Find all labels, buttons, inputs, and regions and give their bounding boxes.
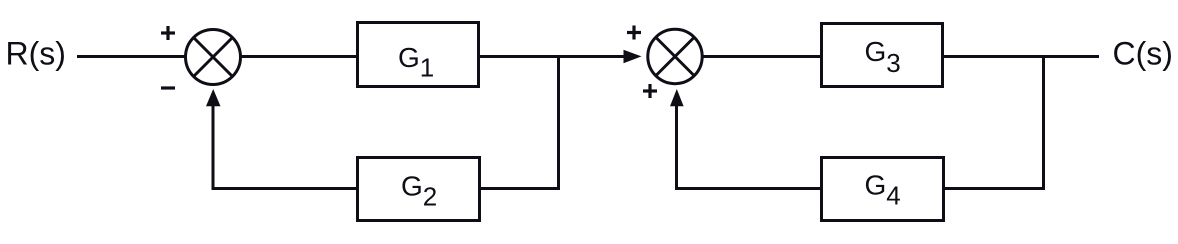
sign + (upper input of S1)	[161, 26, 175, 40]
wire G4 to S2 feedback (vertical riser)	[675, 103, 678, 190]
wire J2 down to G4 input side	[944, 187, 1045, 190]
sign + (upper input of S2)	[627, 26, 641, 40]
block G3	[822, 24, 943, 87]
svg-text:R(s): R(s)	[6, 36, 66, 72]
wire R(s) to summing junction S1	[77, 55, 185, 58]
block G1	[358, 23, 479, 87]
wire S2 to block G3	[703, 55, 821, 58]
arrowhead into S1 bottom	[206, 89, 221, 106]
junction J2 (pick-off after G3)	[1042, 57, 1045, 191]
summing junction S2	[648, 29, 702, 83]
block G4	[822, 158, 944, 221]
wire S1 to block G1	[241, 55, 357, 58]
wire G3 to junction J2 and C(s)	[944, 55, 1099, 58]
wire G1 to junction J1	[480, 55, 559, 58]
block G2	[358, 158, 480, 221]
sign + (lower input of S2)	[643, 84, 657, 98]
wire G4 to S2 feedback (horizontal)	[675, 187, 821, 190]
arrowhead into S2 left	[624, 50, 642, 63]
svg-text:C(s): C(s)	[1113, 36, 1173, 72]
wire J1 to summing junction S2 with arrowhead	[559, 55, 627, 58]
wire bottom feedback: J1 down to G2 output side	[481, 187, 560, 190]
junction J1 (pick-off after G1)	[557, 57, 560, 191]
sign − (lower input of S1)	[161, 86, 175, 89]
wire G2 to S1 feedback (vertical riser)	[212, 103, 215, 190]
wire G2 to S1 feedback (horizontal)	[212, 187, 358, 190]
arrowhead into S2 bottom	[670, 89, 684, 106]
summing junction S1	[186, 30, 241, 85]
